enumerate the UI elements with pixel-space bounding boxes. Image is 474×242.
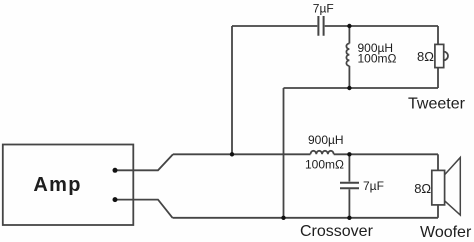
svg-text:100mΩ: 100mΩ (305, 158, 344, 172)
wire crossover shunt cap bottom (348, 189, 350, 218)
wire woofer bottom lead (437, 205, 439, 218)
wire tweeter speaker top lead (437, 26, 439, 44)
node top rail / cap junction (347, 24, 351, 28)
tweeter speaker body (435, 44, 444, 67)
svg-text:8Ω: 8Ω (414, 181, 431, 196)
woofer speaker body (432, 170, 445, 205)
wire tweeter shunt top (348, 26, 350, 44)
wire top rail left segment (crossover input) (173, 153, 311, 155)
wire amp+ to trapezoid top (115, 154, 173, 170)
tweeter dome (444, 52, 448, 61)
wire crossover shunt cap top (348, 154, 350, 181)
woofer cone (445, 158, 461, 216)
wire tweeter return vertical (283, 88, 285, 218)
amp box (3, 145, 134, 226)
wire bottom rail (173, 217, 439, 219)
amp terminal - dot (113, 197, 118, 202)
capacitor C2 7uF plates (340, 183, 359, 189)
svg-text:Tweeter: Tweeter (408, 96, 466, 113)
node crossover cap top junction (347, 152, 351, 156)
svg-text:100mΩ: 100mΩ (358, 52, 397, 66)
svg-text:7µF: 7µF (313, 2, 334, 16)
amp terminal + dot (113, 168, 118, 173)
wire tweeter speaker bottom lead (437, 68, 439, 88)
svg-text:Amp: Amp (33, 174, 81, 196)
wire top rail right segment to woofer (334, 153, 438, 155)
capacitor C1 7uF plates (318, 16, 323, 36)
wire tweeter top rail right of cap (325, 25, 438, 27)
inductor L2 900uH horizontal coil (311, 151, 334, 155)
svg-text:8Ω: 8Ω (417, 49, 434, 64)
node tweeter feed junction (230, 152, 234, 156)
wire tweeter top rail left of cap (232, 25, 317, 27)
svg-text:Crossover: Crossover (300, 223, 374, 240)
svg-text:7µF: 7µF (363, 179, 384, 193)
node tweeter return bottom junction (281, 216, 285, 220)
wire woofer top lead (437, 154, 439, 170)
wire amp- to trapezoid bottom (115, 200, 173, 218)
wire tweeter shunt bottom (348, 66, 350, 88)
svg-text:900µH: 900µH (308, 133, 344, 147)
wire tweeter bottom rail (284, 87, 439, 89)
node crossover cap bottom junction (347, 216, 351, 220)
svg-text:Woofer: Woofer (420, 224, 472, 241)
node tweeter bottom rail junction (347, 86, 351, 90)
wire tweeter feed vertical (231, 26, 233, 154)
inductor L1 900uH vertical coil (346, 44, 349, 66)
